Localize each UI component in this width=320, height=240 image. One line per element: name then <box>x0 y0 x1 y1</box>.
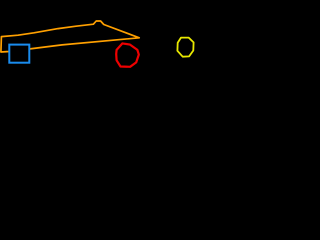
blue square <box>9 45 29 63</box>
orange car/boat outline <box>1 21 139 52</box>
red circle (10-gon) <box>116 43 139 66</box>
yellow octagon <box>177 38 193 57</box>
